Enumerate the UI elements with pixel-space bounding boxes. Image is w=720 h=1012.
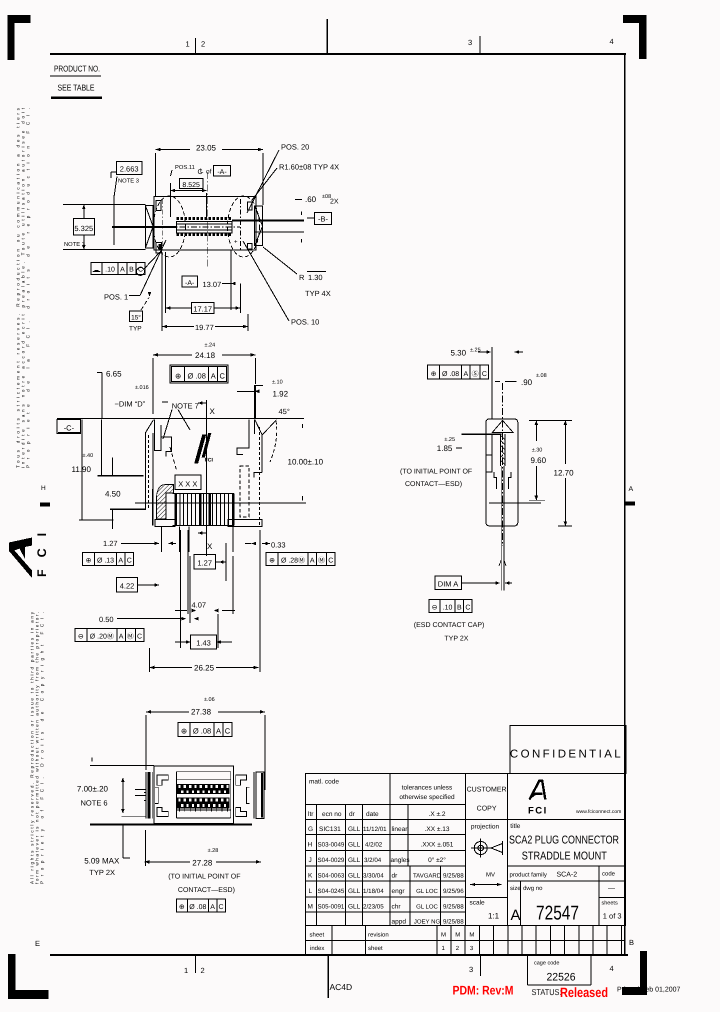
svg-text:.XXX ±.051: .XXX ±.051 [421,842,454,849]
svg-text:1 of 3: 1 of 3 [603,912,622,921]
top view left edge lines [63,204,145,206]
esd lower step profile [494,472,511,489]
svg-text:C: C [328,558,333,565]
svg-text:-A-: -A- [185,280,195,287]
zone fold tick left edge [40,503,50,507]
svg-text:A: A [210,904,215,911]
bottom view contact pins ticks [179,808,181,811]
svg-text:1:1: 1:1 [488,912,500,921]
svg-text:⊕: ⊕ [86,558,92,565]
svg-text:cage code: cage code [534,961,559,967]
section left outer wall [144,433,146,510]
bottom view left lines between views [121,815,145,817]
svg-text:A: A [511,907,521,924]
svg-text:±.10: ±.10 [272,379,283,385]
svg-text:13.07: 13.07 [203,280,222,289]
dashed chamfer arc [270,421,277,462]
svg-text:S03-0049: S03-0049 [318,842,345,849]
position fcf dia .13 A C [83,553,95,566]
svg-text:4.07: 4.07 [192,601,207,610]
zone tick bottom 3-4 [480,956,482,976]
border frame bottom line [50,954,628,956]
svg-text:4/2/02: 4/2/02 [365,842,383,849]
top view left dim tick [113,195,115,245]
svg-text:3: 3 [468,38,472,47]
svg-text:-B-: -B- [318,215,329,224]
svg-text:A: A [118,558,123,565]
svg-text:code: code [602,871,616,878]
svg-text:.X ±.2: .X ±.2 [429,811,446,818]
projection symbol cone [491,843,503,852]
datum -C- boxed [57,419,80,433]
zone tick bottom 1-2 [195,956,197,973]
svg-text:±.016: ±.016 [135,385,149,391]
top view detail ellipse left dashed [154,196,186,257]
svg-text:J: J [309,857,312,864]
svg-text:FCI: FCI [528,806,548,817]
bottom view pcb edge line bold [90,823,252,825]
svg-text:Ø .28Ⓜ: Ø .28Ⓜ [281,557,305,565]
top view flange centerline right dash-dot [240,199,242,251]
svg-text:3/30/04: 3/30/04 [363,873,384,880]
esd contact hatched [500,434,501,466]
svg-text:sheet: sheet [368,945,383,952]
top view left mounting plate with cross [145,206,153,249]
corner mark top-right [623,15,647,59]
svg-text:C: C [465,605,470,612]
position fcf dia .28 (M) A (M) C [266,553,278,566]
svg-text:POS. 1: POS. 1 [104,293,128,302]
svg-text:MV: MV [486,872,495,879]
svg-text:NOTE 3: NOTE 3 [64,241,85,248]
bottom view top edge line left [90,765,154,767]
svg-text:15°: 15° [131,315,141,322]
svg-text:(TO INITIAL POINT OF: (TO INITIAL POINT OF [168,873,240,881]
esd left notch profile [486,434,492,472]
tolerance sub-table divider [407,804,409,866]
dimension 4.22 boxed [117,578,138,593]
svg-text:GLL: GLL [348,842,361,849]
section right outer wall [261,435,263,473]
svg-text:A: A [211,372,216,381]
approval column lines [409,866,411,926]
svg-text:.10: .10 [105,267,115,274]
svg-text:24.18: 24.18 [195,351,216,360]
section top surface line [57,418,304,420]
index table cells [436,926,438,955]
confidential box [510,726,626,774]
svg-text:product family: product family [510,872,547,879]
svg-text:1.27: 1.27 [103,539,118,548]
svg-text:title: title [510,823,521,830]
svg-text:11.90: 11.90 [72,465,92,474]
svg-text:www.fciconnect.com: www.fciconnect.com [576,809,621,815]
revision table header row [306,803,466,805]
esd contact pin [500,466,502,590]
svg-text:date: date [366,811,379,818]
svg-text:SCA-2: SCA-2 [557,872,578,879]
section left inner profile [154,420,161,451]
top view corner square bottom-right [247,243,252,249]
dimension 2.663 boxed with note 3 [117,162,143,175]
dimension 0.33 [252,542,257,546]
svg-text:19.77: 19.77 [195,323,214,332]
svg-text:22526: 22526 [547,972,576,984]
svg-text:TYP 2X: TYP 2X [444,636,468,643]
svg-text:2: 2 [201,966,205,975]
dimension .90 [495,381,500,383]
svg-text:4.22: 4.22 [120,582,135,591]
svg-text:1: 1 [186,40,190,49]
svg-text:CONFIDENTIAL: CONFIDENTIAL [510,749,623,761]
label 15 deg TYP with leader [130,311,143,322]
svg-text:chr: chr [392,903,402,910]
svg-text:A: A [464,371,469,378]
svg-text:9/25/88: 9/25/88 [443,903,464,910]
svg-text:dwg no: dwg no [523,885,543,892]
svg-text:±.30: ±.30 [532,448,543,454]
top view datum A centerline dash-dot [206,172,208,268]
bottom view left cap [145,772,147,818]
svg-text:M: M [469,932,474,939]
svg-text:JOEY NG: JOEY NG [414,919,441,926]
svg-text:⊕: ⊕ [431,371,437,378]
svg-text:of: of [206,169,212,176]
svg-text:±.25: ±.25 [444,437,455,443]
svg-text:H: H [308,842,313,849]
svg-text:45°: 45° [279,407,290,416]
dimension 23.05 [156,149,263,151]
esd position fcf dia .08 A S C [428,365,440,379]
svg-text:matl. code: matl. code [309,779,339,786]
section right wall inner line [254,420,256,434]
dimension 1.43 boxed [191,635,217,649]
svg-text:STATUS:: STATUS: [532,987,562,997]
svg-text:.XX ±.13: .XX ±.13 [425,826,450,833]
top view body outline [154,196,256,250]
dimension 5.325 boxed with note 3 [73,218,94,235]
svg-text:TYP 2X: TYP 2X [89,868,115,877]
dimension 11.90 [81,419,83,520]
svg-text:Ⓜ: Ⓜ [318,557,325,565]
svg-text:.90: .90 [521,378,533,387]
border frame right line [624,53,626,956]
svg-text:SIC131: SIC131 [319,826,341,833]
zone fold tick bottom center [327,956,329,998]
svg-text:A: A [120,267,125,274]
svg-text:4.50: 4.50 [105,490,121,499]
datum -B- boxed [315,213,332,225]
svg-text:+: + [234,240,238,246]
svg-text:6.65: 6.65 [106,370,122,379]
position fcf dia .20 (M) A (M) C [75,629,87,642]
svg-text:12.70: 12.70 [554,469,575,478]
svg-text:STRADDLE MOUNT: STRADDLE MOUNT [522,851,607,863]
svg-text:3: 3 [469,965,473,974]
svg-text:5.30: 5.30 [451,349,467,358]
bottom view position fcf dia .08 A C [178,723,190,737]
top view centerline dash-dot [168,226,240,228]
esd reference line 1.85 bold [461,433,501,435]
svg-text:FCI: FCI [35,521,49,577]
svg-text:0° ±2°: 0° ±2° [428,857,446,864]
svg-text:angles: angles [391,857,411,864]
esd lower tick line [489,502,541,504]
product family row [508,880,626,882]
svg-text:9/25/88: 9/25/88 [443,873,464,880]
svg-text:POS. 10: POS. 10 [291,318,319,327]
svg-text:index: index [310,945,324,952]
svg-text:±.28: ±.28 [208,848,219,854]
svg-text:Ø .08: Ø .08 [193,727,211,736]
zone fold tick top center [326,19,328,54]
svg-text:S05-0091: S05-0091 [318,903,345,910]
svg-text:Ø .08: Ø .08 [188,372,206,381]
bottom view left inner brackets [157,775,168,785]
section comb teeth [173,492,234,494]
svg-text:⊕: ⊕ [181,727,187,736]
svg-text:S04-0029: S04-0029 [318,857,345,864]
svg-text:A: A [119,634,124,641]
top view bold centerline right [232,220,304,222]
bottom view contact band row 2 [176,797,229,808]
svg-text:−DIM “D”: −DIM “D” [115,400,146,409]
section lower surface line [135,502,306,504]
svg-text:K: K [308,873,313,880]
bottom view body outline [154,766,234,823]
esd view extension line top [491,347,493,419]
svg-text:TAVGARD: TAVGARD [413,873,442,880]
esd centerline vertical dash-dot [502,383,504,546]
svg-text:.10: .10 [443,605,453,612]
svg-text:L: L [309,888,313,895]
zone tick top 3-4 [479,36,481,54]
svg-text:Ø .13: Ø .13 [97,557,114,565]
bottom view fcf dia .08 A C lower [176,899,187,912]
svg-text:M: M [455,932,460,939]
svg-text:1.85: 1.85 [437,444,453,453]
svg-text:26.25: 26.25 [194,664,215,673]
position fcf dia .08 A C (section) [172,367,185,382]
svg-text:B: B [129,267,134,274]
top view contact strip outline [176,221,232,233]
svg-text:B: B [629,938,634,947]
svg-text:SEE TABLE: SEE TABLE [58,83,95,93]
svg-text:COPY: COPY [477,806,497,813]
svg-text:±.40: ±.40 [83,453,94,459]
svg-text:H: H [41,485,46,492]
bottom view right cap [253,772,255,818]
zone tick top 1-2 [195,38,197,54]
svg-text:TYP 4X: TYP 4X [305,289,331,298]
svg-text:27.28: 27.28 [192,858,213,867]
svg-text:10.00±.10: 10.00±.10 [288,458,324,467]
bottom view inner lines bottom [176,809,230,811]
top view detail ellipse right dashed [228,196,260,257]
top view corner square bottom-left [156,243,162,253]
svg-text:scale: scale [470,900,486,907]
svg-text:1.30: 1.30 [308,273,323,282]
svg-text:S04-0063: S04-0063 [318,873,345,880]
svg-text:GL LOC: GL LOC [416,903,438,910]
svg-text:POS.11: POS.11 [175,164,195,171]
svg-text:PDM: Rev:M: PDM: Rev:M [453,984,514,998]
top view contact dashes bottom row [177,233,180,236]
section left wall inner line [152,433,154,509]
svg-text:9/25/96: 9/25/96 [443,888,464,895]
fci logo title block [530,781,546,800]
title block outer box [306,774,626,926]
svg-text:G: G [308,826,313,833]
svg-text:⊕: ⊕ [179,904,185,911]
title block vertical dividers [389,804,391,925]
top view right mounting plate with cross [255,206,263,246]
svg-text:A: A [310,558,315,565]
svg-text:X: X [207,542,213,551]
svg-text:2.663: 2.663 [120,165,139,174]
svg-text:11/12/01: 11/12/01 [363,826,387,833]
svg-text:DIM A: DIM A [438,580,458,589]
section label X top with arrow [198,402,207,404]
svg-text:size: size [510,885,521,892]
svg-text:±.08: ±.08 [536,373,547,379]
section left lower wall [152,489,154,526]
svg-text:C: C [137,634,142,641]
dimension 8.525 boxed [180,179,204,189]
svg-text:Ø .20Ⓜ: Ø .20Ⓜ [90,633,114,641]
svg-text:dr: dr [349,811,356,818]
svg-text:Ø .08: Ø .08 [189,903,206,911]
svg-text:(ESD CONTACT CAP): (ESD CONTACT CAP) [414,621,485,629]
section right inner profile [237,420,249,455]
svg-text:sheet: sheet [310,932,325,939]
top view corner square top-right [247,202,252,210]
corner mark bottom-right [622,951,647,995]
svg-text:4: 4 [610,37,614,46]
svg-text:±.06: ±.06 [204,697,215,703]
svg-text:1.27: 1.27 [197,559,212,568]
svg-text:R: R [299,273,305,282]
svg-text:⊕: ⊕ [269,558,275,565]
bottom view inner lines top [176,771,230,773]
svg-text:±.25: ±.25 [470,348,481,354]
zone fold tick right edge [625,502,635,506]
svg-text:tolerances unless: tolerances unless [402,785,453,792]
svg-text:otherwise specified: otherwise specified [399,794,455,801]
svg-text:—: — [608,886,615,893]
flatness fcf .10 A B C [91,263,102,275]
title area divider [508,819,626,821]
svg-text:appd: appd [392,919,407,926]
svg-text:projection: projection [471,824,500,831]
section bottom band right [228,520,262,527]
svg-text:engr: engr [392,888,406,895]
svg-text:GLL: GLL [348,873,361,880]
svg-text:⊕: ⊕ [175,372,181,381]
top view corner square top-left [156,201,161,211]
section label X bottom with arrow [198,532,207,534]
svg-text:NOTE 3: NOTE 3 [118,178,139,185]
esd dim A box with leader [435,576,462,590]
svg-text:X: X [210,407,216,416]
svg-text:1/18/04: 1/18/04 [363,888,384,895]
svg-text:4: 4 [610,964,614,973]
svg-text:-C-: -C- [64,424,75,433]
svg-text:M: M [308,903,313,910]
svg-text:2X: 2X [330,199,339,206]
dimension 13.07 [182,276,198,287]
svg-text:CONTACT—ESD): CONTACT—ESD) [178,886,235,894]
svg-text:⊖: ⊖ [432,605,438,612]
svg-text:0.33: 0.33 [271,541,286,550]
svg-text:2: 2 [201,40,205,49]
svg-text:7.00±.20: 7.00±.20 [77,785,109,794]
svg-text:X X X: X X X [178,480,197,489]
product no underline thick [51,97,102,100]
svg-text:9.60: 9.60 [531,456,547,465]
svg-text:FCI: FCI [205,458,214,464]
svg-text:⊖: ⊖ [78,634,84,641]
corner mark bottom-left [8,954,49,999]
esd fcf concentricity .10 B C [429,600,440,613]
svg-text:9/25/88: 9/25/88 [443,919,464,926]
svg-text:sheets: sheets [602,901,618,907]
bottom view contact band row 1 [176,784,229,794]
svg-text:8.525: 8.525 [182,182,200,189]
section date code box X X X [175,475,201,490]
svg-text:5.325: 5.325 [74,224,93,233]
bottom view centerline stubs [135,789,146,791]
top view bold centerline left [112,226,176,228]
svg-text:A: A [216,727,221,736]
svg-text:R1.60±08 TYP 4X: R1.60±08 TYP 4X [279,163,339,172]
svg-text:SCA2 PLUG CONNECTOR: SCA2 PLUG CONNECTOR [509,835,619,847]
svg-text:CONTACT—ESD): CONTACT—ESD) [405,480,462,488]
svg-text:(TO INITIAL POINT OF: (TO INITIAL POINT OF [400,468,472,476]
esd funnel triangle [492,420,513,432]
bottom view inner rect sides [175,772,177,818]
svg-text:2/23/05: 2/23/05 [363,903,384,910]
cage code box [527,956,529,985]
top view contact dashes top row [177,217,180,220]
code cell [598,866,600,926]
svg-text:TYP: TYP [129,326,142,333]
revision table row lines [306,818,466,820]
svg-text:Released: Released [560,985,608,1000]
section hidden rect right dashed [240,466,249,517]
esd body outline [486,419,518,526]
svg-text:GLL: GLL [348,857,361,864]
svg-text:17.17: 17.17 [193,304,212,313]
svg-text:NOTE 6: NOTE 6 [81,799,108,808]
top view right thin line [255,231,304,233]
svg-text:E: E [35,939,40,948]
svg-text:Ⓜ: Ⓜ [127,633,134,641]
svg-text:23.05: 23.05 [196,144,217,153]
svg-text:NOTE 7: NOTE 7 [172,401,199,410]
svg-text:1.92: 1.92 [273,390,289,399]
top view flange centerline left dash-dot [161,199,163,251]
svg-text:3/2/04: 3/2/04 [364,857,382,864]
section comb tails below [161,527,163,552]
svg-text:CUSTOMER: CUSTOMER [467,787,507,794]
svg-text:A: A [629,486,634,493]
svg-text:GLL: GLL [348,826,361,833]
svg-text:.60: .60 [305,195,317,204]
svg-text:ltr: ltr [308,811,314,818]
svg-text:POS. 20: POS. 20 [281,143,309,152]
svg-text:Ⓢ: Ⓢ [472,370,479,378]
